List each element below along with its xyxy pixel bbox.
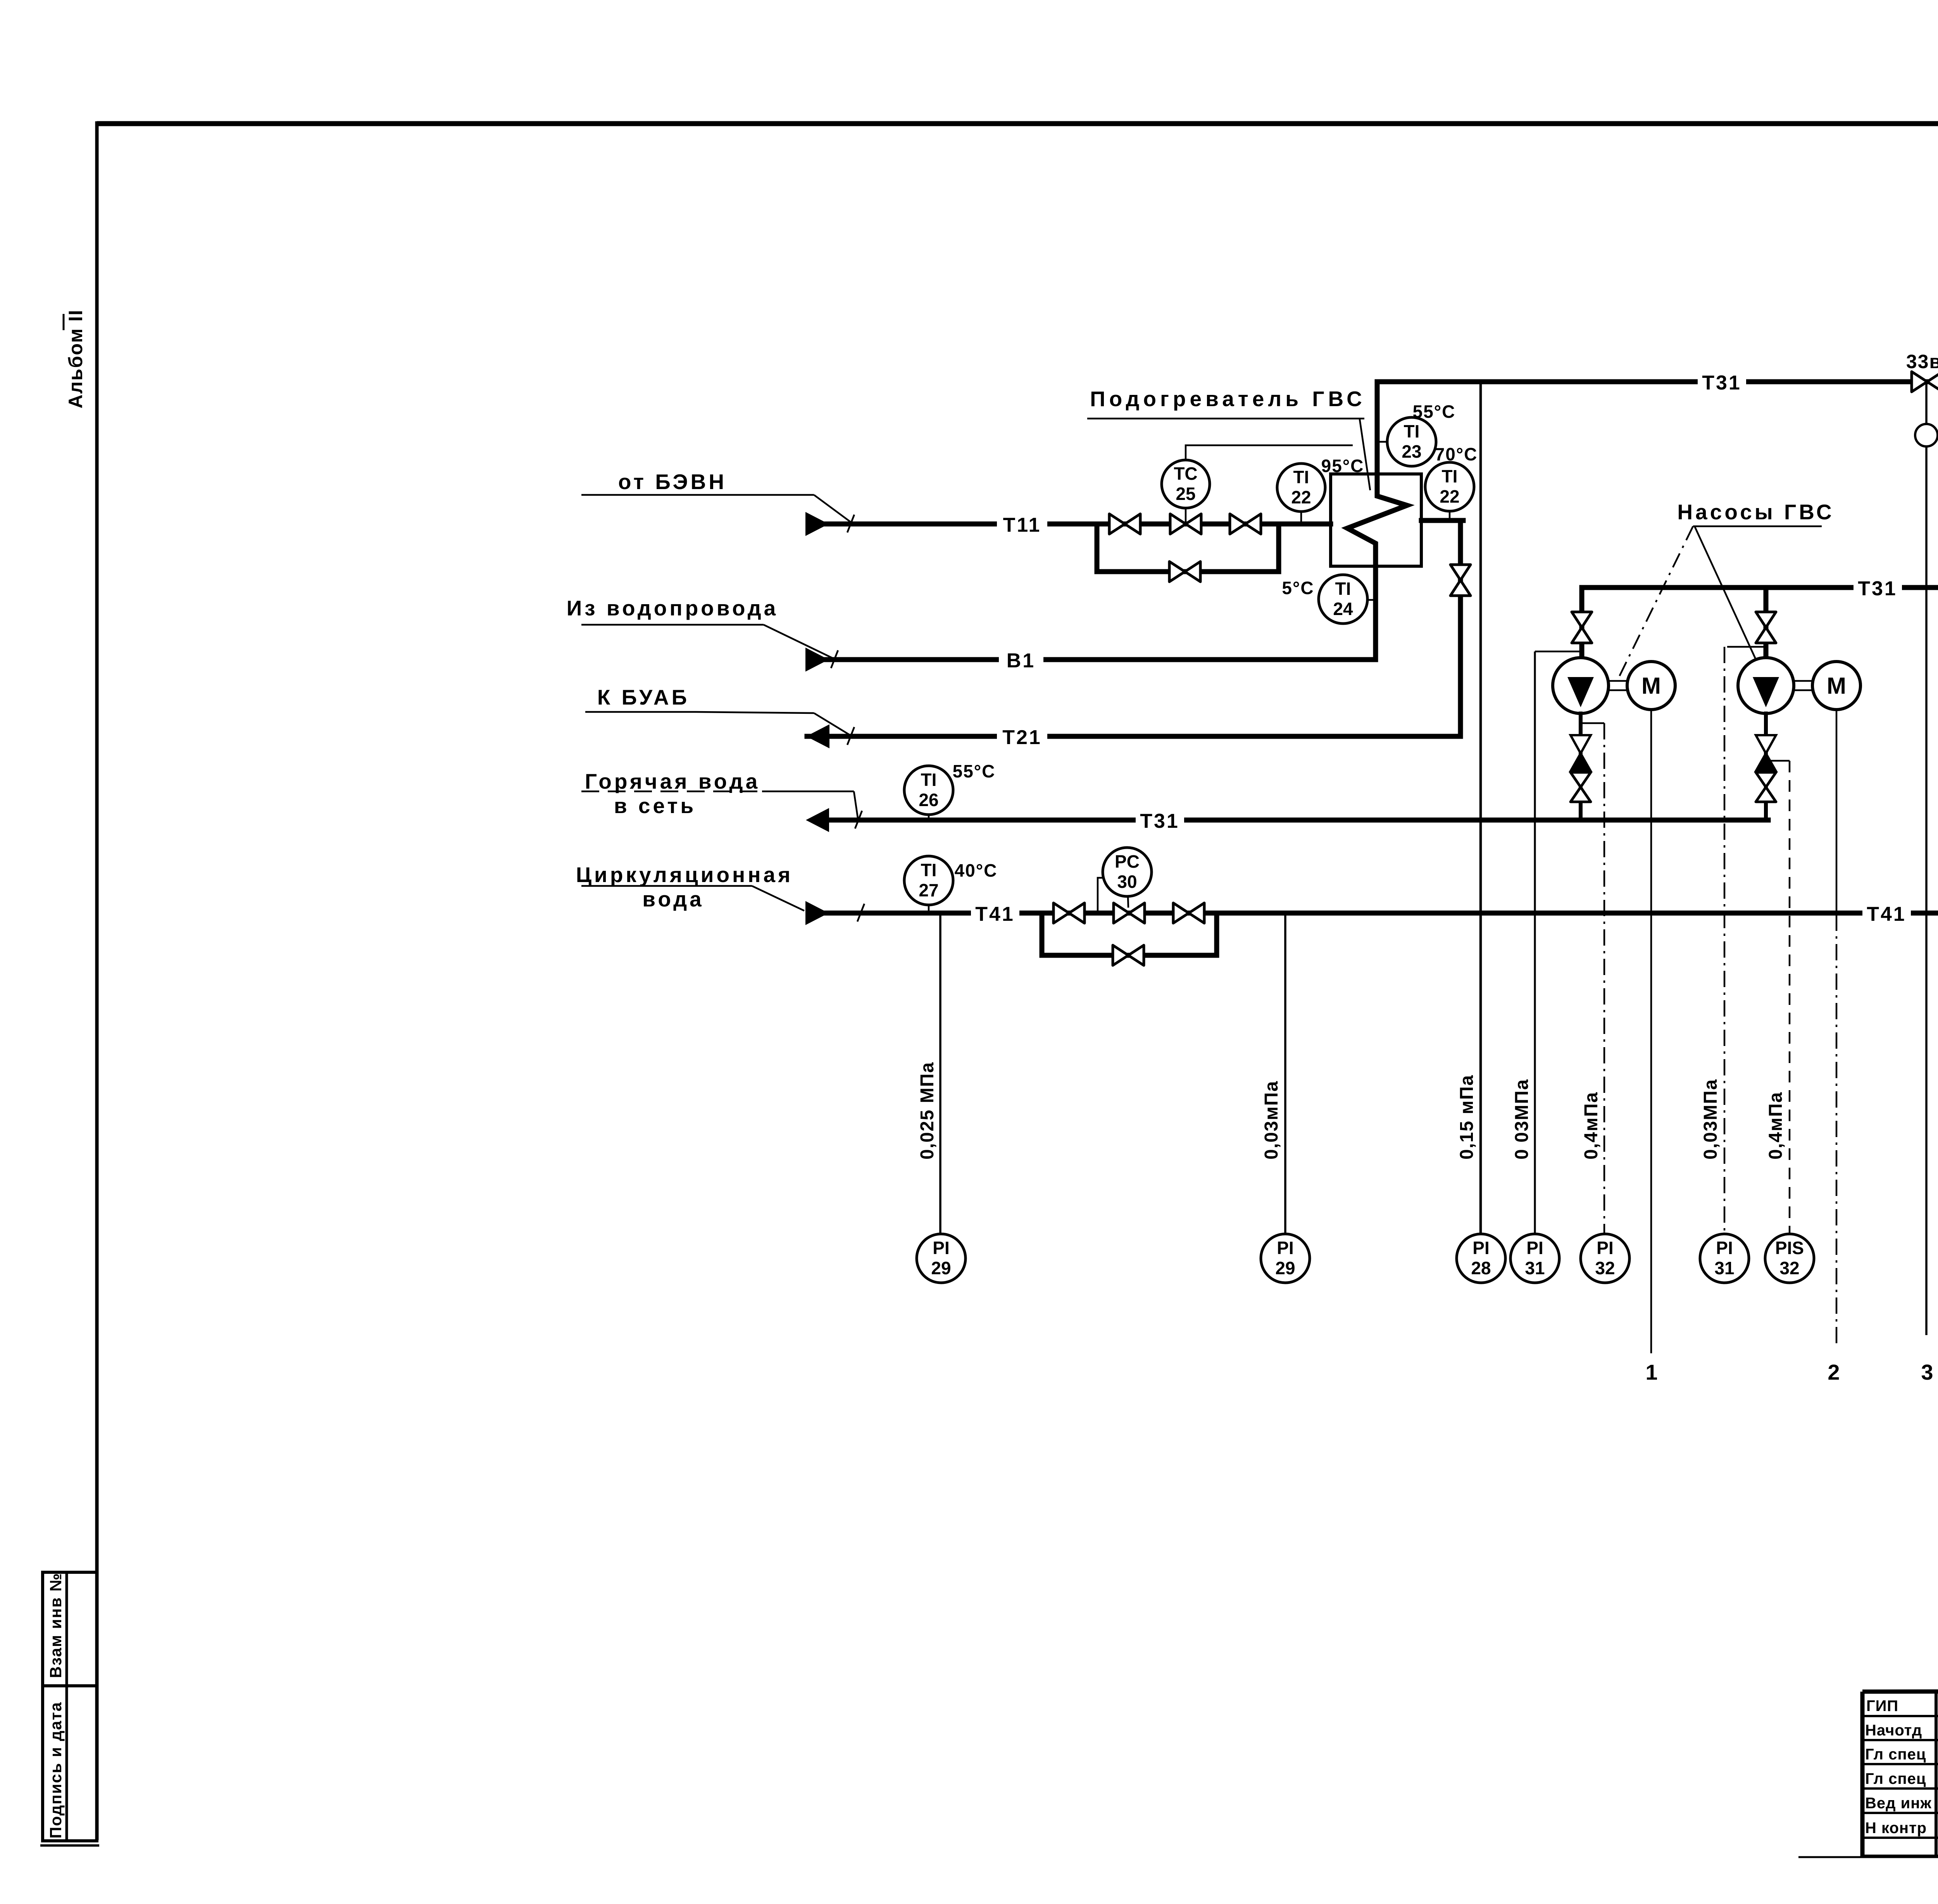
svg-text:Гл спец: Гл спец (1865, 1770, 1926, 1787)
svg-text:PI: PI (1472, 1238, 1489, 1258)
svg-text:30: 30 (1117, 872, 1137, 892)
svg-text:Т11: Т11 (1003, 514, 1041, 536)
svg-text:0,4мПа: 0,4мПа (1581, 1092, 1602, 1160)
svg-text:32: 32 (1779, 1258, 1799, 1278)
svg-text:26: 26 (919, 790, 938, 810)
svg-text:27: 27 (919, 880, 938, 900)
svg-text:К БУАБ: К БУАБ (597, 685, 690, 709)
svg-text:31: 31 (1714, 1258, 1734, 1278)
svg-text:Н контр: Н контр (1865, 1820, 1927, 1837)
svg-text:М: М (1827, 673, 1846, 699)
svg-text:Подпись и дата: Подпись и дата (47, 1702, 65, 1839)
svg-text:1: 1 (1645, 1360, 1658, 1384)
svg-text:Начотд: Начотд (1865, 1722, 1922, 1739)
svg-text:PI: PI (1716, 1238, 1733, 1258)
svg-text:TC: TC (1174, 464, 1197, 484)
svg-text:Альбом II: Альбом II (65, 309, 86, 408)
svg-text:Из водопровода: Из водопровода (567, 596, 779, 620)
svg-text:Т31: Т31 (1858, 577, 1897, 600)
svg-text:PC: PC (1115, 851, 1140, 872)
svg-text:25: 25 (1176, 484, 1195, 504)
svg-text:от БЭВН: от БЭВН (618, 470, 727, 494)
svg-text:31: 31 (1525, 1258, 1545, 1278)
svg-text:0,4мПа: 0,4мПа (1766, 1092, 1786, 1160)
svg-text:55°С: 55°С (1413, 401, 1456, 422)
svg-text:TI: TI (1442, 466, 1458, 486)
svg-text:PI: PI (1597, 1238, 1613, 1258)
svg-text:0,03мПа: 0,03мПа (1261, 1080, 1282, 1160)
svg-text:2: 2 (1828, 1360, 1840, 1384)
svg-text:PI: PI (933, 1238, 949, 1258)
svg-text:70°С: 70°С (1435, 444, 1478, 464)
svg-text:5°С: 5°С (1282, 578, 1314, 598)
svg-text:0,15 мПа: 0,15 мПа (1457, 1075, 1477, 1160)
svg-text:40°С: 40°С (955, 860, 998, 880)
svg-text:Подогреватель ГВС: Подогреватель ГВС (1090, 387, 1366, 411)
svg-text:95°С: 95°С (1321, 456, 1364, 476)
svg-text:0 03МПа: 0 03МПа (1512, 1079, 1532, 1160)
svg-text:22: 22 (1440, 486, 1459, 507)
svg-text:24: 24 (1333, 599, 1353, 619)
svg-text:Т41: Т41 (975, 903, 1015, 925)
svg-text:TI: TI (1335, 579, 1351, 599)
svg-text:55°С: 55°С (953, 761, 996, 781)
svg-text:32: 32 (1595, 1258, 1615, 1278)
svg-text:TI: TI (921, 770, 937, 790)
svg-text:в сеть: в сеть (614, 794, 696, 818)
svg-text:Насосы ГВС: Насосы ГВС (1677, 500, 1834, 524)
svg-text:TI: TI (1404, 421, 1420, 441)
svg-text:0,025 МПа: 0,025 МПа (917, 1061, 938, 1160)
svg-text:Циркуляционная: Циркуляционная (576, 863, 793, 887)
svg-text:33в: 33в (1906, 351, 1938, 372)
svg-text:29: 29 (1275, 1258, 1295, 1278)
svg-text:PI: PI (1526, 1238, 1543, 1258)
svg-text:В1: В1 (1007, 650, 1035, 672)
svg-text:29: 29 (931, 1258, 951, 1278)
svg-text:вода: вода (642, 887, 704, 911)
svg-text:TI: TI (1293, 467, 1309, 487)
svg-text:3: 3 (1921, 1360, 1934, 1384)
svg-text:Вед инж: Вед инж (1865, 1795, 1932, 1812)
svg-text:22: 22 (1291, 487, 1311, 507)
svg-text:Горячая вода: Горячая вода (585, 769, 760, 793)
svg-text:Т41: Т41 (1867, 903, 1906, 925)
svg-text:М: М (1641, 673, 1661, 699)
svg-text:Т31: Т31 (1702, 372, 1741, 394)
svg-text:PIS: PIS (1775, 1238, 1804, 1258)
svg-text:Т21: Т21 (1002, 726, 1042, 749)
svg-text:Гл спец: Гл спец (1865, 1746, 1926, 1763)
svg-text:PI: PI (1277, 1238, 1293, 1258)
svg-text:TI: TI (921, 860, 937, 880)
svg-text:Т31: Т31 (1140, 810, 1179, 832)
svg-text:28: 28 (1471, 1258, 1491, 1278)
svg-text:ГИП: ГИП (1866, 1697, 1898, 1714)
svg-text:0,03МПа: 0,03МПа (1700, 1079, 1721, 1160)
svg-text:Взам инв №: Взам инв № (47, 1573, 65, 1678)
svg-text:23: 23 (1402, 441, 1421, 462)
